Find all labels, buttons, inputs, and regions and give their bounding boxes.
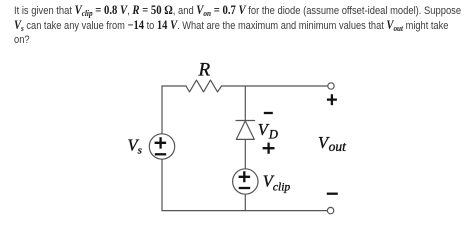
wire: left vertical from Vs source down to bottom wire [161, 159, 163, 210]
svg-text:VD: VD [258, 120, 278, 142]
Vclip polarity plus sign [239, 171, 251, 182]
voltage source Vs circle [149, 134, 174, 159]
svg-text:Vs: Vs [128, 135, 142, 156]
wire: middle branch from top wire down to diode cathode [244, 86, 246, 120]
output terminal top-right circle [328, 83, 334, 89]
wire: left vertical from top wire down to Vs source [161, 86, 163, 134]
output terminal bottom-right circle [327, 207, 333, 213]
wire: top-right horizontal segment to output terminal [222, 85, 328, 87]
Vs polarity plus sign [155, 137, 167, 148]
svg-text:Vout: Vout [318, 133, 347, 154]
diode minus label mark [264, 112, 273, 114]
output minus mark [327, 193, 338, 195]
svg-text:R: R [198, 60, 211, 81]
voltage source Vclip circle [233, 169, 258, 194]
Vclip polarity minus sign [239, 187, 251, 189]
diode plus label mark [263, 143, 275, 154]
resistor R1 zigzag [186, 80, 222, 92]
diode D1 triangle [236, 121, 254, 139]
wire: top-left horizontal segment [162, 85, 186, 87]
Vs polarity minus sign [155, 153, 166, 155]
svg-text:Vclip: Vclip [263, 172, 291, 194]
output plus mark [327, 94, 337, 105]
wire: bottom horizontal to output terminal [162, 210, 327, 212]
diode D1 cathode bar [236, 120, 255, 122]
wire: middle branch from Vclip source down to bottom wire [244, 194, 246, 210]
wire: middle branch from diode anode down to Vclip source [244, 139, 246, 168]
